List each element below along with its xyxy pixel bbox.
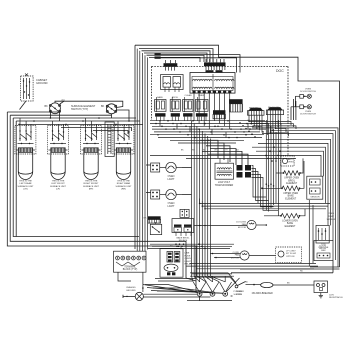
- label POWER SUPPLY: [234, 291, 243, 296]
- svg-text:(RF): (RF): [89, 188, 94, 190]
- svg-text:SURFACE UNIT: SURFACE UNIT: [115, 185, 132, 188]
- center wire bundle verticals: [192, 121, 211, 276]
- oven light indicator oval: [164, 264, 178, 275]
- mini breaker switch: [235, 282, 251, 296]
- right wire bundle verticals: [266, 120, 281, 216]
- label OVEN DOOR SWITCH upper: [300, 88, 316, 93]
- bottom feed wires y278-281: [155, 279, 196, 282]
- svg-text:(RR): (RR): [121, 188, 126, 190]
- terminal block label: [123, 266, 138, 272]
- oven lamp L1: [160, 162, 182, 172]
- keyboard block: [190, 70, 235, 93]
- surface switch SW1: [49, 103, 60, 114]
- lower bake element: [264, 214, 300, 219]
- broil element end riser: [300, 158, 303, 173]
- bundle converge into power terminals: [192, 276, 226, 282]
- svg-text:UPPER OVEN: UPPER OVEN: [284, 178, 299, 180]
- wire run y158: [186, 157, 296, 159]
- oven switch S2 connector: [171, 113, 180, 120]
- svg-text:AUTO: AUTO: [288, 158, 294, 161]
- upper broil label: [284, 178, 299, 185]
- wire loop under switches b: [93, 131, 128, 135]
- wire run y263-269: [186, 263, 318, 268]
- surface unit 3 terminal strip: [82, 148, 101, 153]
- svg-text:COOLING: COOLING: [236, 222, 246, 224]
- labels above oven switches: [157, 94, 205, 99]
- cooling fan motor: [236, 220, 256, 229]
- label 15A MINI-BREAKER: [252, 292, 274, 295]
- surface switch SW2: [106, 104, 116, 114]
- svg-text:GROUND: GROUND: [126, 290, 136, 292]
- svg-text:RECEPTACLE: RECEPTACLE: [329, 296, 343, 299]
- power terminal L2: [220, 277, 232, 297]
- terminal block box: [114, 251, 147, 272]
- svg-text:ELEMENT: ELEMENT: [285, 198, 296, 200]
- svg-text:LIGHT: LIGHT: [185, 261, 192, 263]
- svg-text:MOTOR: MOTOR: [231, 257, 240, 259]
- bus L-drops to transformer region: [200, 140, 248, 170]
- surface unit 2 control contacts: [47, 126, 68, 155]
- power terminal N: [206, 277, 219, 297]
- surface unit 4 control contacts: [113, 126, 134, 155]
- svg-text:KIT 50 HZ: KIT 50 HZ: [286, 253, 297, 255]
- svg-text:LINE: LINE: [185, 253, 190, 255]
- right bundle dots: [266, 155, 277, 187]
- relay block K1 (clock): [161, 75, 184, 93]
- console loop wires to keyboard: [161, 55, 240, 73]
- light receptacle box: [314, 281, 328, 293]
- oven lamp L1 label: [167, 175, 175, 181]
- svg-text:DOC: DOC: [276, 69, 284, 73]
- label BK left of SW2: [101, 105, 105, 108]
- oven lamp L2: [160, 189, 182, 199]
- svg-text:(LF): (LF): [56, 188, 60, 190]
- terminal block terminals: [116, 256, 146, 260]
- terminal block inner wiring: [116, 262, 140, 266]
- svg-text:BAKE BROIL: BAKE BROIL: [176, 236, 190, 239]
- bus wire 3 loop: [13, 118, 139, 237]
- svg-text:POWER: POWER: [236, 291, 244, 293]
- junction channel between units 3 and 4: [105, 122, 114, 157]
- svg-text:120V: 120V: [329, 295, 334, 297]
- connector pin drop dots: [248, 115, 282, 133]
- oven sensor box: [307, 176, 323, 199]
- keyboard pin row: [193, 91, 232, 94]
- ground lug wires right: [143, 294, 210, 297]
- wire SW2 right to console bundle: [112, 110, 130, 121]
- mini breaker fuse (oval): [251, 282, 314, 287]
- svg-text:BAKE: BAKE: [288, 195, 295, 198]
- wire run y128: [252, 128, 338, 267]
- svg-text:BLOCK (TYP): BLOCK (TYP): [123, 269, 138, 271]
- oven switch S4: [195, 97, 208, 112]
- svg-text:UPPER OVEN: UPPER OVEN: [283, 193, 298, 195]
- wire from ground connector to chassis loop: [20, 101, 27, 110]
- wire run y131: [270, 131, 336, 260]
- transformer label: [215, 181, 234, 187]
- oven switch S1: [155, 97, 166, 112]
- wire loop under switches a: [61, 128, 132, 132]
- surface unit 4 terminal strip: [114, 148, 133, 153]
- svg-text:BROIL: BROIL: [172, 97, 179, 99]
- lamp wires to bundle: [146, 165, 192, 195]
- svg-text:OVEN: OVEN: [328, 213, 334, 215]
- svg-text:FUSE: FUSE: [185, 255, 191, 257]
- wire run y151: [256, 151, 324, 176]
- wire run y139: [266, 139, 331, 225]
- label DOC: [276, 69, 284, 73]
- door switch box: [150, 222, 161, 235]
- bus wire 2 loop: [10, 115, 186, 262]
- bus junction dots: [18, 117, 130, 125]
- svg-text:SENSOR: SENSOR: [310, 197, 320, 199]
- cross wires y244-248: [148, 244, 234, 248]
- svg-text:TEMP: TEMP: [328, 216, 334, 218]
- upper broil element: [276, 171, 301, 176]
- surface unit 3 label: [83, 181, 100, 191]
- bus wire 4: [16, 120, 140, 122]
- door latch assembly: [316, 225, 329, 250]
- wire assembly to cooling fan motor: [194, 225, 247, 227]
- label 120V RECEPTACLE: [329, 295, 343, 300]
- conv fan motor wire right: [249, 255, 275, 257]
- svg-text:FAN: FAN: [235, 254, 240, 257]
- wire SW1 pins down to bus: [50, 112, 59, 121]
- svg-text:OVEN: OVEN: [185, 258, 192, 260]
- surface unit 2 feed wires: [53, 121, 64, 130]
- oven switch S3: [183, 97, 193, 112]
- bus wire 1 outer loop: [7, 112, 196, 292]
- svg-text:LIGHT: LIGHT: [167, 178, 175, 181]
- bus wire 5: [19, 123, 143, 125]
- vertical runs x309-313: [309, 200, 313, 266]
- wires to convection fan motor: [210, 253, 240, 259]
- svg-text:TRANSFORMER: TRANSFORMER: [215, 184, 234, 187]
- center wiring bus horizontals: [150, 121, 268, 143]
- cooling fan motor wire right: [256, 224, 267, 226]
- console left wire bundle: [137, 49, 147, 250]
- upper oven light: [295, 94, 311, 98]
- svg-text:VENT: VENT: [288, 162, 294, 164]
- svg-text:LOWER OVEN: LOWER OVEN: [282, 221, 298, 223]
- svg-text:TOD: TOD: [321, 244, 326, 246]
- surface unit 1 control contacts: [15, 126, 36, 155]
- lower bake label: [282, 221, 298, 228]
- bottom relay DLB1: [167, 252, 173, 263]
- svg-text:(LR): (LR): [23, 188, 28, 190]
- svg-text:15A MINI-BREAKER: 15A MINI-BREAKER: [252, 292, 274, 295]
- bottom relay labels: [185, 253, 193, 266]
- surface unit 2 terminal strip: [49, 148, 68, 153]
- wire nut 1: [155, 53, 161, 55]
- oven switch S4 connector: [196, 113, 208, 120]
- surface unit 1 feed wires: [20, 118, 31, 130]
- surface unit 2 label: [50, 181, 67, 191]
- connector trapezoid B: [266, 107, 283, 115]
- svg-text:RELAYS: RELAYS: [179, 239, 188, 242]
- wire run y147: [252, 147, 326, 203]
- wire run y143: [258, 143, 328, 225]
- connector pin steps to right bundle: [249, 122, 296, 137]
- cabinet outline left edge: [134, 45, 136, 249]
- surface unit 4 element body: [116, 152, 130, 179]
- svg-text:BK W RD: BK W RD: [249, 108, 259, 110]
- svg-text:DOOR SWITCH: DOOR SWITCH: [300, 91, 316, 93]
- chassis ground screw: [123, 292, 143, 300]
- connector A pin drops: [249, 115, 262, 132]
- connector trapezoid A: [248, 108, 265, 116]
- relay assembly label: [176, 236, 190, 242]
- oven lamp L2 label: [167, 202, 175, 208]
- power cord fan wires: [143, 285, 224, 294]
- surface unit 4 feed wires: [118, 121, 129, 130]
- surface unit 2 element body: [51, 152, 65, 179]
- upper bake element: [261, 186, 300, 191]
- lower oven light: [291, 105, 311, 109]
- svg-text:BAKE: BAKE: [287, 222, 294, 225]
- svg-text:SWITCH (TYP): SWITCH (TYP): [71, 108, 88, 111]
- connector P3 (hatched): [164, 60, 178, 71]
- wire run y203-209: [199, 199, 330, 210]
- sensor label (right margin): [327, 213, 336, 221]
- oven light feed wires: [291, 96, 296, 120]
- surface unit 3 element body: [84, 152, 98, 179]
- wires to breaker row: [186, 262, 233, 301]
- svg-text:ELEMENT: ELEMENT: [286, 183, 297, 185]
- wire run y155: [150, 155, 321, 176]
- surface unit 4 label: [115, 181, 132, 191]
- svg-text:SURFACE UNIT: SURFACE UNIT: [17, 185, 34, 188]
- cabinet outline (console top edge and right side): [135, 45, 340, 267]
- right junction dot cluster: [265, 146, 281, 161]
- center bus extra dots and stubs: [155, 120, 264, 141]
- lower bake end riser: [300, 209, 306, 216]
- svg-text:CORD: CORD: [236, 294, 243, 296]
- wire run y134: [262, 134, 333, 241]
- svg-text:BROIL: BROIL: [288, 180, 296, 182]
- receptacle ground symbol: [319, 293, 323, 298]
- connector P4 (hatched): [204, 59, 226, 70]
- svg-text:SENSOR: SENSOR: [327, 219, 336, 221]
- cabinet bottom-right closure wires: [231, 261, 340, 273]
- convection fan motor: [231, 251, 249, 260]
- svg-text:CHASSIS: CHASSIS: [126, 286, 136, 289]
- center bus junction dots: [157, 120, 256, 138]
- surface unit 3 control contacts: [80, 126, 101, 155]
- svg-text:GROUND: GROUND: [36, 81, 48, 85]
- surface unit 1 terminal strip: [16, 148, 35, 153]
- oven switch S2: [170, 97, 180, 112]
- svg-text:LIGHT: LIGHT: [167, 205, 175, 208]
- latch switch cluster (small squares): [180, 209, 189, 217]
- bake element end riser: [300, 161, 305, 188]
- svg-text:BU GY OR: BU GY OR: [268, 107, 279, 109]
- wire color labels bottom: [170, 246, 303, 285]
- wire terminal to mini-breaker: [227, 278, 240, 292]
- keyboard drops to bus: [194, 93, 230, 129]
- surface unit 3 feed wires: [86, 118, 97, 130]
- wire nut 2: [155, 56, 161, 58]
- bottom relay assembly (dark bar): [172, 219, 194, 236]
- svg-text:DBL LINE: DBL LINE: [319, 247, 329, 249]
- transformer side connectors: [237, 165, 252, 178]
- oven switch S3 connector: [183, 113, 192, 120]
- connector block P6 (tall dark): [229, 99, 243, 112]
- ground connector J1 (dashed body): [21, 74, 33, 102]
- console top nested wire loops: [139, 49, 213, 62]
- svg-text:ELEMENT: ELEMENT: [285, 226, 296, 228]
- label BK left of SW1: [45, 105, 49, 108]
- control panel dashed boundary: [152, 66, 289, 155]
- terminal feed bar: [190, 274, 234, 276]
- wires angling into breaker row: [190, 273, 237, 285]
- svg-text:FAN: FAN: [242, 223, 247, 226]
- svg-text:SURFACE UNIT: SURFACE UNIT: [83, 185, 100, 188]
- cross wire dots cluster: [175, 243, 206, 249]
- svg-text:DOOR SWITCH: DOOR SWITCH: [300, 113, 316, 115]
- transformer T1: [215, 158, 234, 179]
- chassis ground label: [126, 286, 136, 292]
- relay box lower-right: [314, 241, 333, 261]
- wire SW1 top loop to SW2: [55, 101, 123, 107]
- svg-text:SURFACE UNIT: SURFACE UNIT: [50, 185, 67, 188]
- svg-text:CLEAN: CLEAN: [185, 94, 192, 97]
- oven lamp L2 connector: [151, 190, 160, 199]
- LP conversion kit box: [276, 247, 302, 262]
- console bundle into terminal block: [137, 250, 145, 252]
- wire color labels under bus: [181, 150, 239, 152]
- svg-text:LEFT REAR: LEFT REAR: [20, 182, 32, 185]
- power terminal L1: [193, 277, 206, 297]
- svg-text:LP CONV: LP CONV: [286, 251, 296, 253]
- svg-text:CONV: CONV: [233, 252, 240, 254]
- connector B pin drops: [268, 115, 281, 135]
- svg-text:BRK: BRK: [321, 250, 326, 252]
- relay assembly outer box: [160, 249, 183, 278]
- svg-text:TERMINAL: TERMINAL: [124, 266, 136, 269]
- svg-text:BK: BK: [45, 105, 49, 108]
- svg-text:MOTOR: MOTOR: [238, 227, 247, 229]
- bus wire 4 left drop: [15, 121, 17, 237]
- upper bake label: [283, 193, 298, 200]
- svg-text:BAKE: BAKE: [157, 96, 163, 99]
- transformer-to-lower L-corners: [252, 166, 279, 211]
- label OVEN DOOR SWITCH lower: [300, 111, 316, 116]
- bottom relay DLB2: [174, 252, 180, 263]
- door switch connector (hatched): [144, 216, 161, 223]
- surface unit 1 element body: [18, 152, 32, 179]
- label SURFACE ELEMENT SWITCH: [71, 105, 96, 111]
- svg-text:BK: BK: [101, 105, 105, 108]
- oven lamp L1 connector: [151, 163, 160, 172]
- oven switch S1 connector: [155, 113, 165, 120]
- svg-text:RIGHT REAR: RIGHT REAR: [117, 182, 131, 185]
- svg-text:OPTION: OPTION: [286, 256, 295, 258]
- wire terminal box down to ground area: [118, 272, 144, 292]
- surface unit 1 label: [17, 181, 34, 191]
- label RD above SW1: [62, 100, 66, 103]
- vent damper: [281, 156, 295, 166]
- label CABINET GROUND: [36, 78, 48, 85]
- connector block P5 (hatched): [213, 110, 225, 119]
